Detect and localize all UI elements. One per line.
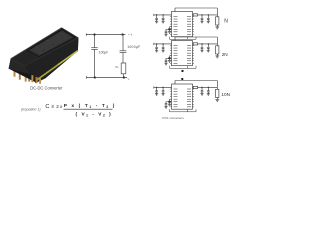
svg-text:(Equation 1): (Equation 1) bbox=[21, 107, 41, 111]
node: output junctions block 3 bbox=[201, 87, 203, 89]
top face rim line bbox=[11, 28, 79, 66]
pin 5 bbox=[28, 73, 30, 82]
DC-DC converter module photo body bbox=[9, 28, 79, 83]
capacitor Cout2 blk1 bbox=[207, 15, 209, 18]
equation 1 bbox=[21, 103, 116, 117]
U3 pin-name dashes and pin stubs bbox=[174, 88, 178, 90]
wire: stub to lower-left caps block 1 bbox=[170, 26, 172, 28]
resistor Rfb block 1 bbox=[216, 17, 219, 25]
wire: bottom return rail block 1 bbox=[169, 37, 171, 40]
POL converter blocks bbox=[154, 8, 219, 112]
wire: stub to lower-left caps block 2 bbox=[170, 55, 172, 57]
ground under Cb1 blk1 bbox=[168, 31, 171, 33]
capacitor Cb1 blk3 bbox=[169, 99, 171, 101]
ground under Cout2 blk3 bbox=[207, 93, 210, 95]
pin 6 bbox=[31, 75, 33, 82]
top-left edge highlight bbox=[11, 28, 62, 59]
svg-text:C: C bbox=[45, 104, 49, 110]
wire: input rail block 2 bbox=[154, 43, 172, 45]
ground under Cb2 blk2 bbox=[164, 62, 167, 64]
node: output junctions block 2 bbox=[201, 43, 203, 45]
wire: top feedback run block 2 bbox=[175, 36, 217, 38]
ground under Rfb block 1 bbox=[215, 26, 219, 28]
capacitor C2 plates bbox=[120, 50, 127, 52]
capacitor Cin2 blk1 bbox=[162, 15, 164, 18]
node: bottom right junction bbox=[123, 76, 125, 78]
front pins (over body edge) bbox=[31, 75, 41, 84]
svg-text:10N: 10N bbox=[221, 92, 230, 97]
terminal tick left bottom bbox=[86, 76, 88, 78]
wire: input rail block 1 bbox=[154, 14, 172, 16]
wire: input rail block 3 bbox=[154, 86, 172, 88]
POL converter 3: IC U3 body bbox=[172, 84, 193, 109]
capacitor Cin2 blk3 bbox=[162, 87, 164, 90]
svg-text:DC-DC Converter: DC-DC Converter bbox=[30, 86, 63, 91]
dark tip below stripe lower end bbox=[35, 80, 38, 83]
resistor Rfb block 3 bbox=[216, 89, 219, 97]
ground under Cout2 blk2 bbox=[207, 49, 210, 51]
capacitor Cb1 blk2 bbox=[169, 56, 171, 58]
ground under Cout1 blk3 bbox=[200, 93, 203, 95]
ground under Cb1 blk2 bbox=[168, 60, 171, 62]
node: input junctions block 1 bbox=[156, 14, 158, 16]
capacitor C1 plates bbox=[91, 47, 97, 49]
pin 2 (nub) bbox=[16, 67, 18, 71]
ground under Cin1 blk3 bbox=[155, 93, 158, 95]
capacitor C2 lead lower bbox=[122, 53, 124, 63]
svg-text:RL: RL bbox=[115, 65, 119, 69]
inductor L2 bbox=[193, 43, 197, 45]
svg-text:1000µF: 1000µF bbox=[127, 45, 140, 49]
ground under Cout1 blk1 bbox=[200, 20, 203, 22]
fraction bar bbox=[64, 108, 113, 110]
capacitor Cout1 blk1 bbox=[201, 15, 203, 18]
svg-text:2 x: 2 x bbox=[56, 104, 63, 109]
capacitor Cb2 blk2 bbox=[165, 58, 167, 60]
DC-DC converter module: gold pins (drawn first, tucked under body) bbox=[14, 67, 31, 82]
pin 8 bbox=[39, 78, 41, 83]
inductor L1 bbox=[193, 14, 197, 16]
capacitor Cout1 blk2 bbox=[201, 44, 203, 47]
case near-right side face bbox=[25, 38, 79, 83]
POL converter 2: IC U2 body bbox=[172, 41, 193, 66]
wire: top feedback run block 1 bbox=[175, 7, 217, 9]
POL converter 1: IC U1 body bbox=[172, 12, 193, 37]
svg-text:P x ( T1 - T2 ): P x ( T1 - T2 ) bbox=[64, 103, 116, 109]
capacitor C1 lead lower bbox=[94, 49, 96, 77]
holdup capacitor schematic bbox=[86, 33, 127, 78]
wire: bottom return rail block 2 bbox=[169, 66, 171, 69]
node: top right junction bbox=[121, 33, 123, 35]
capacitor Cout1 blk3 bbox=[201, 87, 203, 90]
pin 3 bbox=[19, 70, 21, 80]
svg-text:N: N bbox=[224, 18, 228, 24]
resistor Rfb block 2 bbox=[216, 46, 219, 54]
ground under Cb2 blk3 bbox=[164, 106, 167, 108]
case near side face shading bbox=[9, 59, 46, 79]
U2 pin-name dashes and pin stubs bbox=[174, 45, 178, 47]
ground under Cin2 blk2 bbox=[162, 49, 165, 51]
wire: top rail bbox=[86, 34, 125, 36]
capacitor Cb2 blk3 bbox=[165, 102, 167, 104]
top face bbox=[11, 28, 79, 66]
svg-text:≥: ≥ bbox=[51, 104, 54, 109]
capacitor Cb1 blk1 bbox=[169, 27, 171, 29]
ground under Cin1 blk2 bbox=[155, 49, 158, 51]
node: top left junction bbox=[93, 33, 95, 35]
stripe bright right half bbox=[58, 51, 78, 65]
capacitor Cin1 blk1 bbox=[156, 15, 158, 18]
ellipsis dot 2 bbox=[181, 78, 183, 80]
terminal marks right bbox=[128, 34, 132, 80]
capacitor Cin2 blk2 bbox=[162, 44, 164, 47]
panel inner sheen bbox=[32, 32, 71, 55]
ground under Rfb block 3 bbox=[215, 98, 219, 100]
pin 1 bbox=[14, 68, 16, 77]
recessed inner panel bbox=[28, 30, 75, 57]
ground under Cin2 blk3 bbox=[162, 93, 165, 95]
module body silhouette (top + side faces + under-PCB dark) bbox=[9, 28, 79, 83]
PCB edge yellow stripe bbox=[36, 51, 78, 81]
ground under Cin2 blk1 bbox=[162, 20, 165, 22]
ground under Cout2 blk1 bbox=[207, 20, 210, 22]
panel speckles bbox=[36, 46, 38, 47]
ellipsis dot 1 bbox=[181, 70, 183, 72]
wire: stub to lower-left caps block 3 bbox=[170, 98, 172, 100]
svg-text:POL converters: POL converters bbox=[162, 116, 184, 120]
ground under Rfb block 2 bbox=[215, 55, 219, 57]
terminal tick left top bbox=[85, 33, 87, 35]
node: input junctions block 2 bbox=[156, 43, 158, 45]
node: bottom left junction bbox=[94, 76, 96, 78]
ground under Cin1 blk1 bbox=[155, 20, 158, 22]
inductor L3 bbox=[193, 86, 197, 88]
node: output junctions block 1 bbox=[201, 14, 203, 16]
svg-text:100µF: 100µF bbox=[99, 51, 108, 55]
U1 pin-name dashes and pin stubs bbox=[174, 16, 178, 18]
pin 7 bbox=[36, 77, 38, 83]
capacitor Cb2 blk1 bbox=[165, 29, 167, 31]
capacitor Cin1 blk3 bbox=[156, 87, 158, 90]
wire: bottom rail bbox=[87, 77, 128, 79]
wire: top feedback run block 3 bbox=[175, 80, 217, 82]
resistor RL body bbox=[121, 63, 126, 74]
pin 4 bbox=[25, 72, 27, 82]
wire: output rail block 1 bbox=[193, 14, 218, 16]
ground under Cb2 blk1 bbox=[164, 33, 167, 35]
capacitor Cout2 blk2 bbox=[207, 44, 209, 47]
svg-text:2N: 2N bbox=[222, 52, 228, 57]
svg-text:( V1 - V2 ): ( V1 - V2 ) bbox=[76, 112, 113, 118]
resistor RL lead lower bbox=[123, 74, 125, 78]
capacitor Cin1 blk2 bbox=[156, 44, 158, 47]
capacitor C2 lead upper bbox=[122, 35, 124, 51]
ground under Cb1 blk3 bbox=[168, 103, 171, 105]
capacitor Cout2 blk3 bbox=[207, 87, 209, 90]
capacitor C1 lead upper bbox=[94, 35, 96, 48]
ground under Cout1 blk2 bbox=[200, 49, 203, 51]
wire: output rail block 2 bbox=[193, 43, 218, 45]
wire: bottom return rail block 3 bbox=[169, 109, 171, 112]
wire: output rail block 3 bbox=[193, 86, 218, 88]
node: input junctions block 3 bbox=[156, 87, 158, 89]
